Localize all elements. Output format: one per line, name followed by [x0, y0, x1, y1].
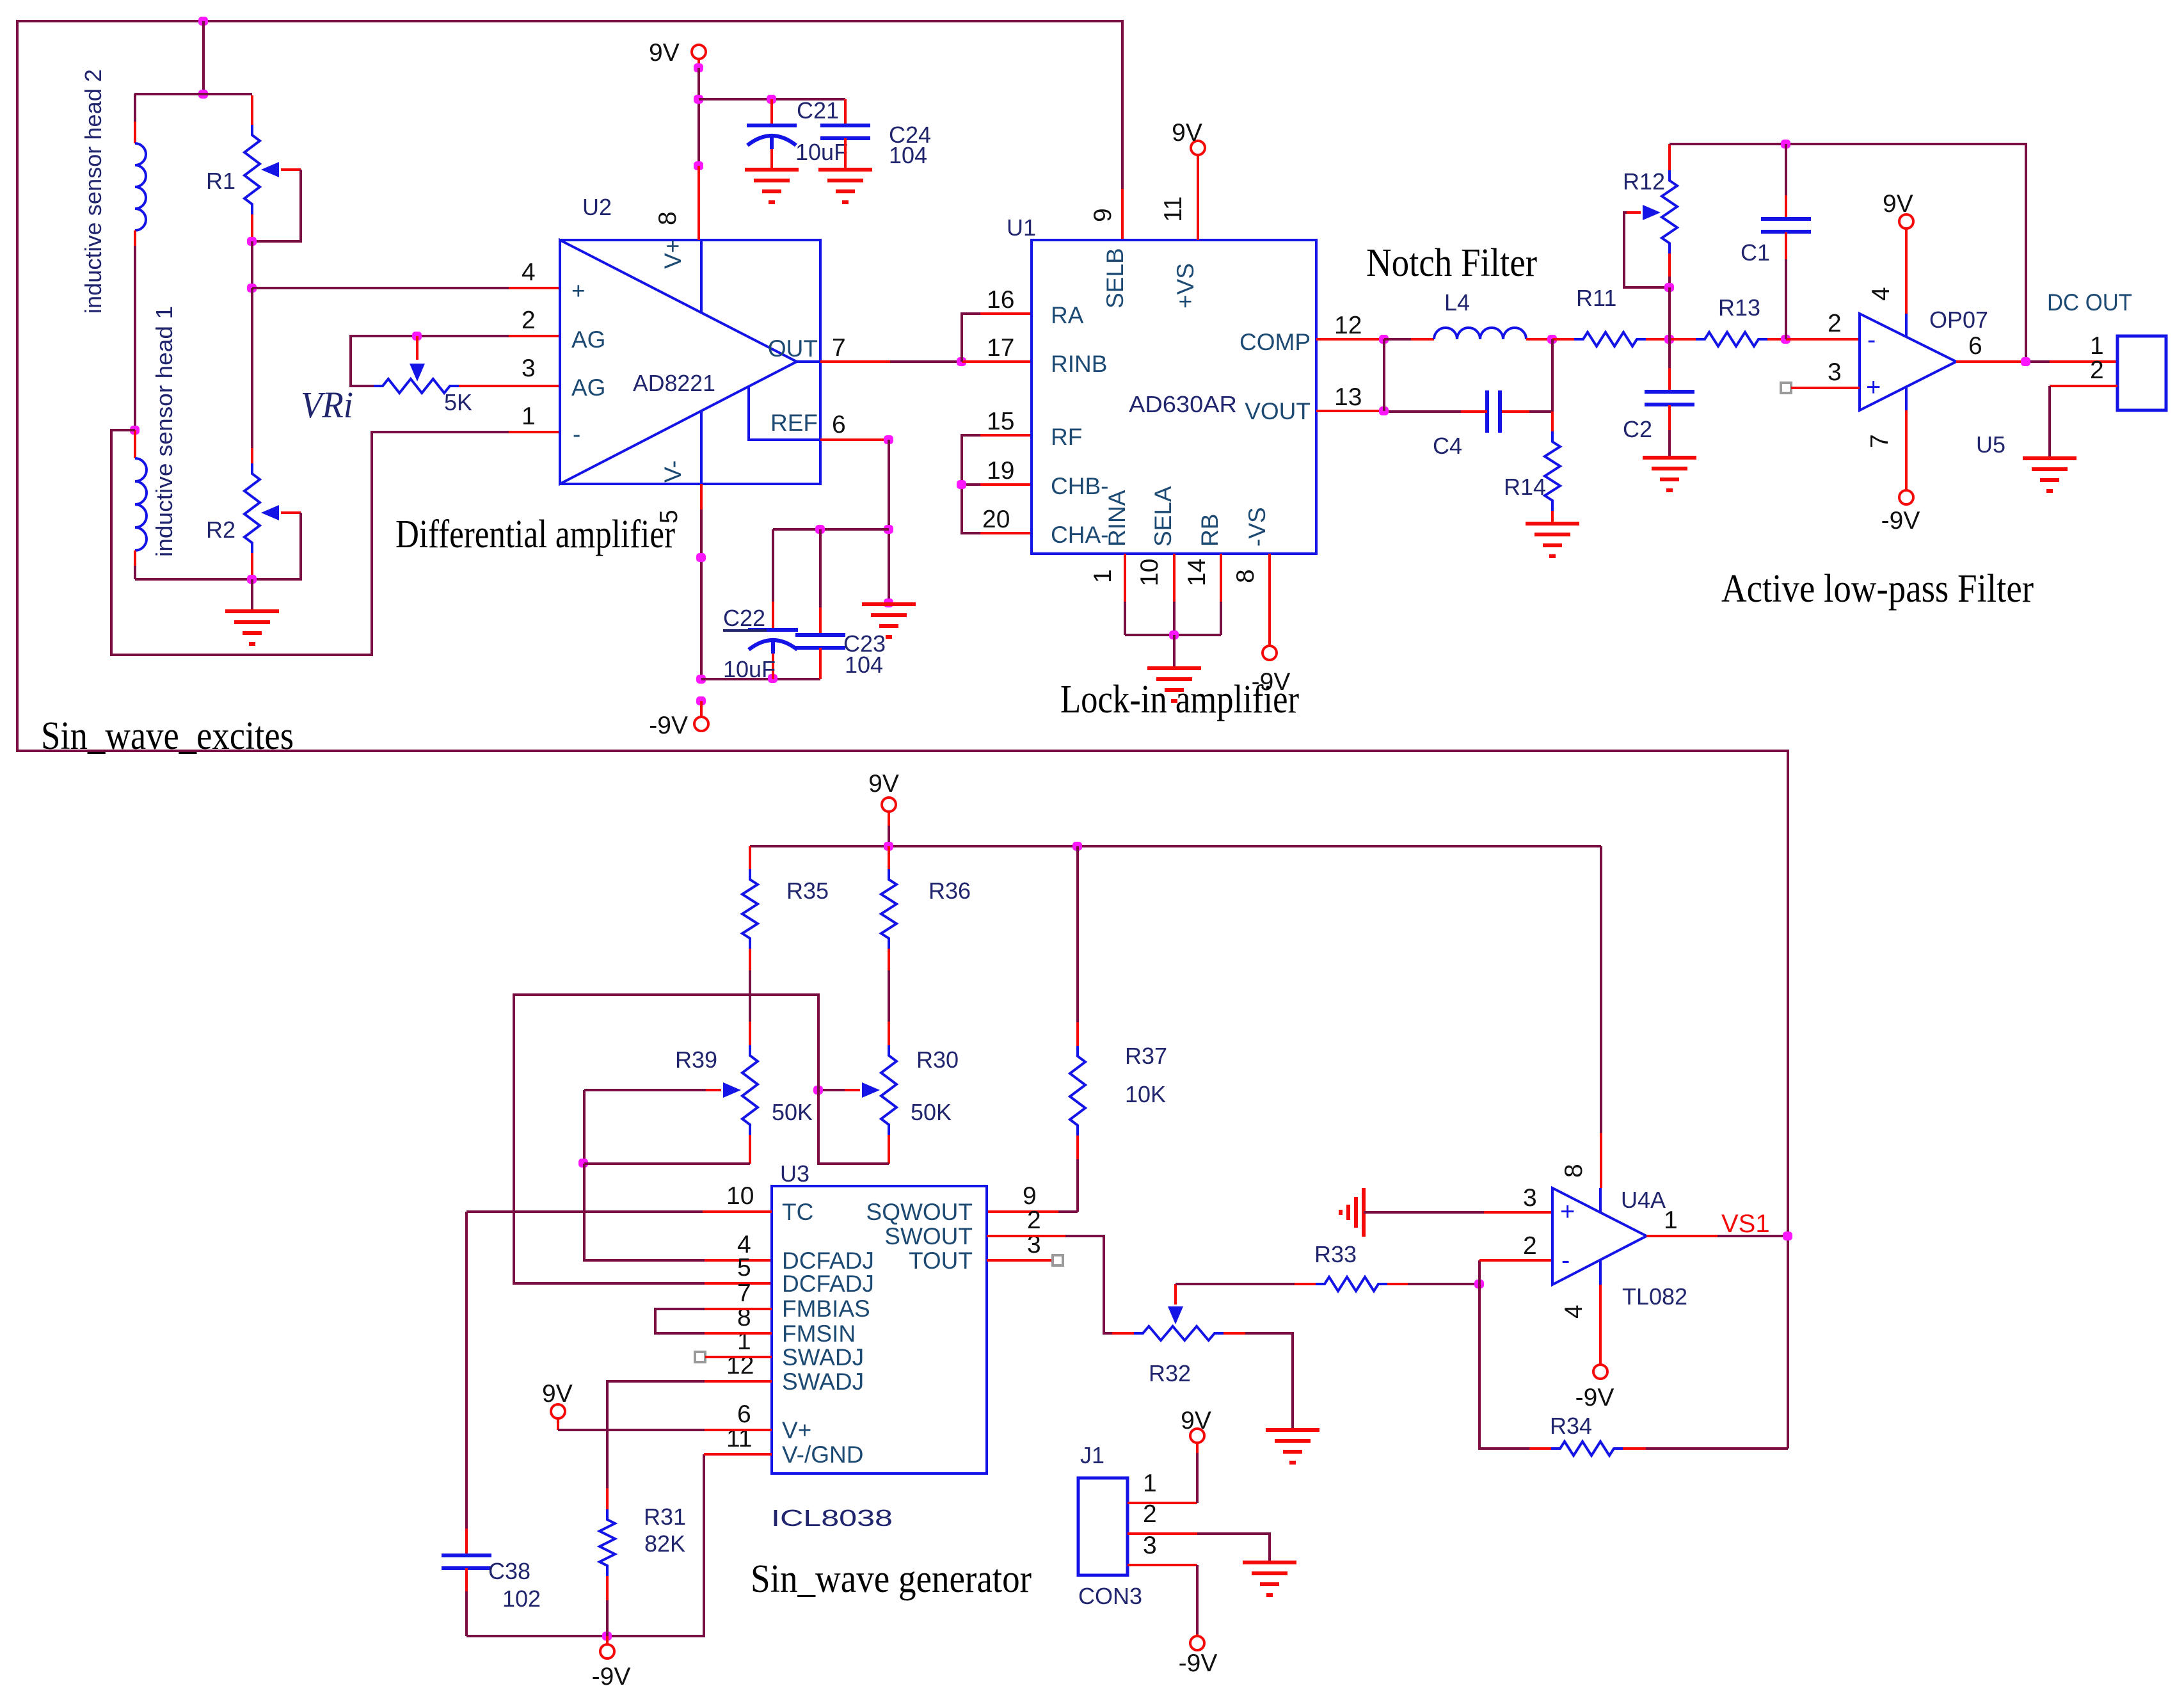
svg-text:C38: C38 — [488, 1558, 530, 1584]
power port -9V (U1) — [1263, 646, 1277, 660]
svg-text:104: 104 — [845, 652, 883, 678]
svg-text:Active low-pass Filter: Active low-pass Filter — [1721, 567, 2034, 611]
capacitor C38 102 — [465, 1529, 468, 1555]
ground (rotated) U4A pin3 — [1362, 1188, 1366, 1237]
ground R32 — [1266, 1428, 1319, 1432]
node junction C23 top — [815, 525, 825, 534]
U4A pin4 line — [1599, 1260, 1602, 1285]
wire R37 to SQWOUT — [1058, 1210, 1078, 1213]
wire U4A pin8 to 9V rail — [1600, 846, 1602, 1133]
svg-text:102: 102 — [502, 1586, 541, 1612]
svg-text:R31: R31 — [644, 1504, 686, 1530]
node junction CHB bracket — [957, 480, 966, 489]
svg-text:12: 12 — [1334, 312, 1362, 339]
wire to U4A pin2 — [1478, 1260, 1481, 1284]
node junction OUT net — [957, 357, 966, 366]
node junction SELA ground — [1169, 630, 1179, 639]
svg-text:13: 13 — [1334, 383, 1362, 411]
wire U4A pin4 to -9V — [1599, 1285, 1602, 1364]
wire 9V rail — [750, 845, 1601, 847]
svg-text:4: 4 — [522, 259, 536, 286]
svg-text:R33: R33 — [1314, 1241, 1357, 1267]
svg-text:6: 6 — [737, 1401, 751, 1428]
node junction C21 top — [767, 95, 776, 104]
node junction REF — [884, 435, 893, 444]
wire R1 to pin4 node — [251, 241, 253, 288]
svg-text:9V: 9V — [649, 39, 680, 67]
svg-text:8: 8 — [654, 211, 682, 225]
resistor R11 — [1552, 338, 1574, 341]
ground C2 — [1643, 456, 1696, 460]
svg-text:14: 14 — [1183, 559, 1211, 586]
wire R1R2 column — [251, 288, 253, 448]
op-amp U4A TL082 body — [1552, 1188, 1646, 1285]
node junction head1 top — [130, 426, 139, 435]
svg-text:SQWOUT: SQWOUT — [866, 1199, 973, 1225]
svg-text:FMBIAS: FMBIAS — [782, 1296, 870, 1322]
wire U4A output VS1 — [1646, 1235, 1718, 1237]
svg-text:16: 16 — [987, 286, 1014, 314]
svg-text:REF: REF — [770, 410, 818, 436]
svg-text:1: 1 — [737, 1328, 751, 1355]
svg-text:Sin_wave_excites: Sin_wave_excites — [41, 714, 294, 758]
wire to U3 pin4 — [584, 1164, 705, 1260]
svg-text:V-/GND: V-/GND — [782, 1441, 863, 1468]
wire branch to sensor heads — [202, 21, 205, 94]
svg-text:10: 10 — [1136, 559, 1163, 586]
svg-text:10: 10 — [726, 1182, 754, 1210]
resistor R14 — [1551, 412, 1554, 431]
node junction top border — [198, 17, 208, 26]
svg-text:TL082: TL082 — [1622, 1283, 1687, 1310]
svg-text:RINB: RINB — [1051, 351, 1107, 377]
svg-text:J1: J1 — [1080, 1442, 1104, 1468]
svg-text:R32: R32 — [1149, 1360, 1191, 1386]
ground R14 — [1526, 522, 1579, 526]
svg-text:CHB-: CHB- — [1051, 473, 1108, 499]
wire R30 wiper to pin5 route — [514, 995, 818, 1283]
svg-text:9V: 9V — [542, 1380, 573, 1408]
svg-text:VOUT: VOUT — [1245, 398, 1311, 424]
node junction VRi wiper — [412, 332, 422, 341]
power port 9V (U1 +VS) — [1191, 141, 1205, 155]
wire VOUT out — [1316, 410, 1384, 412]
svg-text:2: 2 — [1143, 1500, 1157, 1528]
wire pin9 SELB red lead — [1121, 189, 1124, 240]
ground J1 pin2 — [1243, 1561, 1296, 1564]
svg-text:R34: R34 — [1550, 1413, 1592, 1439]
resistor R13 — [1670, 338, 1696, 341]
svg-text:1: 1 — [522, 403, 536, 430]
node junction VS1 — [1783, 1232, 1792, 1240]
svg-text:2: 2 — [1828, 310, 1842, 337]
U2 V+ pin line — [700, 240, 703, 314]
ground C24 — [818, 168, 872, 172]
wiper arrow R39 — [723, 1082, 741, 1098]
wire RA-RINB bracket — [962, 314, 980, 362]
node junction R2 bottom — [247, 575, 257, 584]
svg-text:20: 20 — [982, 506, 1010, 533]
svg-text:DC OUT: DC OUT — [2047, 289, 2132, 316]
svg-text:SWADJ: SWADJ — [782, 1344, 864, 1370]
wire U2 pin5 to -9V — [700, 484, 703, 510]
svg-text:U2: U2 — [582, 194, 612, 220]
node junction sensor top — [198, 90, 208, 99]
svg-text:17: 17 — [987, 334, 1014, 362]
svg-text:+: + — [1866, 373, 1881, 401]
power port -9V (U4A) — [1593, 1365, 1607, 1379]
wire main loop border (VS1 drive net) — [17, 21, 1788, 1449]
node junction R31 bottom — [602, 1632, 612, 1641]
node junction L4 out — [1547, 335, 1557, 344]
wire R32 wiper to R33 — [1176, 1283, 1295, 1285]
resistor R1 (variable) — [251, 95, 253, 125]
svg-text:R1: R1 — [206, 168, 235, 194]
wire R39 bottom loop — [584, 1162, 750, 1165]
svg-text:-9V: -9V — [1881, 507, 1920, 534]
svg-text:11: 11 — [1160, 197, 1187, 223]
wire cap top rail — [773, 528, 889, 531]
potentiometer R39 50K — [749, 1022, 751, 1045]
svg-text:DCFADJ: DCFADJ — [782, 1271, 874, 1297]
node junction rail R37 — [1072, 842, 1082, 851]
ground DC OUT — [2023, 456, 2076, 460]
potentiometer R32 — [1112, 1332, 1134, 1335]
capacitor C2 — [1668, 339, 1671, 368]
svg-text:9V: 9V — [1181, 1407, 1211, 1434]
svg-text:+: + — [571, 278, 586, 304]
svg-text:SELB: SELB — [1102, 248, 1128, 309]
power port -9V (J1) — [1190, 1636, 1204, 1650]
op-amp U2 AD8221 body — [560, 240, 820, 484]
svg-text:8: 8 — [1560, 1164, 1588, 1178]
op-amp U5 OP07 body — [1860, 314, 1956, 410]
wire DC OUT pin2 to ground — [2050, 385, 2117, 387]
capacitor C4 — [1485, 390, 1489, 433]
svg-text:-9V: -9V — [1575, 1384, 1614, 1411]
node junction R30 wiper — [813, 1086, 823, 1095]
svg-text:R2: R2 — [206, 517, 235, 543]
U4A pin8 line — [1599, 1188, 1602, 1212]
svg-text:1: 1 — [2090, 332, 2104, 360]
IC U3 ICL8038 body — [772, 1186, 987, 1473]
capacitor C22 10uF — [772, 529, 774, 602]
svg-text:3: 3 — [522, 355, 536, 382]
svg-text:AD630AR: AD630AR — [1129, 391, 1237, 417]
wire 9V to decoupling caps — [699, 98, 845, 100]
svg-text:RINA: RINA — [1104, 490, 1130, 547]
svg-text:RB: RB — [1197, 514, 1223, 547]
svg-text:Lock-in amplifier: Lock-in amplifier — [1060, 678, 1299, 721]
wire U3 TC route — [703, 1210, 772, 1213]
svg-text:V+: V+ — [660, 239, 686, 269]
node junction REF ground — [884, 598, 893, 607]
resistor R37 10K — [1076, 846, 1079, 1022]
svg-text:15: 15 — [987, 408, 1014, 435]
svg-text:82K: 82K — [644, 1530, 685, 1557]
wire J1 pin1 to 9V — [1128, 1502, 1197, 1504]
node junction VOUT — [1379, 406, 1389, 415]
resistor R2 (variable) — [251, 448, 253, 463]
no-connect U5 pin3 — [1781, 383, 1791, 393]
power port 9V (U3 V+) — [551, 1404, 565, 1418]
svg-text:R13: R13 — [1718, 294, 1760, 321]
svg-text:R14: R14 — [1504, 474, 1546, 500]
svg-text:TC: TC — [782, 1199, 813, 1225]
node junction pin5 b — [696, 675, 706, 684]
wiper arrow R12 — [1643, 205, 1661, 220]
wire C22 C23 bottom rail — [701, 678, 820, 680]
power port 9V (J1) — [1190, 1429, 1204, 1443]
svg-text:50K: 50K — [911, 1099, 952, 1125]
svg-text:U3: U3 — [780, 1160, 809, 1187]
node junction rail R36 — [884, 842, 893, 851]
svg-text:2: 2 — [2090, 357, 2104, 384]
svg-text:6: 6 — [832, 411, 846, 438]
svg-text:9V: 9V — [868, 770, 899, 798]
wire REF net — [820, 438, 889, 441]
resistor R12 (variable) — [1668, 144, 1671, 170]
svg-text:V+: V+ — [782, 1417, 811, 1443]
wire J1 pin3 to -9V — [1128, 1564, 1197, 1566]
svg-text:Differential amplifier: Differential amplifier — [395, 513, 675, 556]
svg-text:CON3: CON3 — [1078, 1583, 1142, 1609]
wiper arrow R30 — [862, 1082, 880, 1098]
resistor R35 — [749, 846, 751, 869]
svg-text:3: 3 — [1523, 1184, 1537, 1212]
connector J1 CON3 — [1078, 1478, 1128, 1575]
capacitor C24 104 — [844, 99, 847, 125]
power port 9V (U2) — [692, 45, 706, 59]
svg-text:-: - — [573, 421, 580, 447]
svg-text:7: 7 — [1866, 434, 1893, 448]
potentiometer VRi 5K — [351, 336, 417, 386]
svg-text:RF: RF — [1051, 424, 1082, 450]
svg-text:AG: AG — [571, 374, 605, 401]
svg-text:R37: R37 — [1125, 1043, 1167, 1069]
wire U2 OUT to U1 RINB — [820, 360, 890, 363]
svg-text:R12: R12 — [1623, 168, 1665, 195]
svg-text:-VS: -VS — [1244, 507, 1270, 547]
svg-text:+: + — [1560, 1198, 1575, 1226]
svg-text:2: 2 — [522, 307, 536, 334]
svg-text:-9V: -9V — [1179, 1650, 1218, 1677]
node junction 9V stem — [694, 63, 703, 72]
wire R12 top feedback — [1670, 144, 2026, 362]
svg-text:2: 2 — [1027, 1207, 1041, 1234]
svg-text:Notch Filter: Notch Filter — [1366, 241, 1537, 285]
wire U5 output — [1956, 360, 2021, 363]
svg-text:U4A: U4A — [1621, 1187, 1666, 1213]
svg-text:8: 8 — [1232, 569, 1259, 583]
U2 REF pin line — [749, 387, 820, 440]
node junction U4A inverting node — [1474, 1280, 1484, 1289]
svg-text:V-: V- — [660, 460, 686, 483]
svg-text:AD8221: AD8221 — [633, 370, 715, 396]
wire RF/CHB-/CHA- bracket — [962, 435, 980, 533]
power port 9V (generator rail) — [882, 798, 896, 812]
svg-text:4: 4 — [1867, 287, 1895, 301]
wire pin8 V+ red lead — [697, 166, 700, 240]
U5 pin4 line — [1905, 314, 1908, 337]
IC U1 AD630AR body — [1032, 240, 1316, 554]
svg-text:C22: C22 — [723, 605, 765, 631]
svg-text:CHA-: CHA- — [1051, 522, 1108, 548]
svg-text:SELA: SELA — [1150, 486, 1176, 547]
svg-text:9V: 9V — [1883, 190, 1913, 218]
svg-text:9: 9 — [1023, 1182, 1037, 1210]
wire U1 bottom pins — [1124, 554, 1126, 602]
wire head1 to pin1 route — [111, 430, 509, 655]
node junction C2x top rail — [884, 525, 893, 534]
svg-text:COMP: COMP — [1239, 329, 1311, 355]
svg-text:5K: 5K — [444, 389, 472, 415]
svg-text:TOUT: TOUT — [909, 1248, 973, 1274]
svg-text:VRi: VRi — [301, 384, 353, 426]
svg-text:VS1: VS1 — [1721, 1210, 1770, 1238]
svg-text:6: 6 — [1968, 332, 1982, 360]
svg-text:DCFADJ: DCFADJ — [782, 1248, 874, 1274]
svg-text:1: 1 — [1664, 1207, 1678, 1234]
svg-text:L4: L4 — [1444, 289, 1470, 316]
connector DC OUT — [2117, 336, 2166, 410]
svg-text:3: 3 — [1828, 358, 1842, 386]
wire C4 branch — [1551, 339, 1554, 412]
node junction C22 bottom — [768, 674, 777, 683]
svg-text:10uF: 10uF — [723, 656, 776, 682]
inductor sensor head 2 coil — [134, 94, 136, 122]
capacitor C21 10uF — [770, 99, 773, 125]
node junction R12 bottom — [1664, 283, 1674, 292]
power port -9V (R31) — [600, 1644, 614, 1658]
svg-text:inductive sensor head 2: inductive sensor head 2 — [80, 69, 106, 314]
svg-text:3: 3 — [1143, 1532, 1157, 1559]
resistor R33 — [1295, 1283, 1316, 1285]
wire SWOUT to R32 — [987, 1235, 1065, 1237]
node junction R11-R13 — [1664, 335, 1674, 344]
svg-text:+VS: +VS — [1172, 263, 1199, 309]
wire sensor top horizontal — [134, 93, 252, 95]
capacitor C1 — [1785, 144, 1787, 195]
wire COMP out — [1316, 338, 1384, 341]
svg-text:C21: C21 — [797, 97, 839, 124]
svg-text:C4: C4 — [1433, 433, 1462, 459]
svg-text:Sin_wave generator: Sin_wave generator — [751, 1557, 1032, 1601]
svg-text:R39: R39 — [675, 1047, 717, 1073]
inductor L4 — [1384, 338, 1411, 341]
svg-text:-9V: -9V — [649, 712, 688, 739]
svg-text:U5: U5 — [1976, 431, 2005, 458]
wiper arrow R32 — [1168, 1306, 1183, 1324]
ground sensor divider — [251, 579, 253, 611]
svg-text:C1: C1 — [1741, 239, 1770, 266]
svg-text:7: 7 — [832, 334, 846, 362]
svg-text:19: 19 — [987, 457, 1014, 485]
capacitor C23 104 — [819, 529, 822, 607]
svg-text:C2: C2 — [1623, 416, 1652, 442]
node junction pin4 branch — [247, 284, 257, 293]
svg-text:OP07: OP07 — [1929, 307, 1988, 333]
wiper arrow VRi — [410, 364, 425, 381]
node junction pin8 stem — [694, 161, 703, 170]
power port -9V (U2) — [694, 717, 708, 731]
wire head1 bottom to R2 node — [135, 578, 252, 581]
svg-text:-: - — [1867, 326, 1876, 354]
svg-text:OUT: OUT — [768, 335, 818, 362]
svg-text:50K: 50K — [772, 1099, 813, 1125]
svg-text:AG: AG — [571, 326, 605, 353]
svg-text:-: - — [1561, 1246, 1570, 1274]
wire R30 bottom loop — [818, 1090, 889, 1164]
svg-text:10uF: 10uF — [795, 139, 848, 165]
wire J1 pin2 to ground — [1128, 1532, 1197, 1535]
wiper arrow R1 — [261, 162, 279, 177]
svg-text:9: 9 — [1089, 208, 1117, 222]
svg-text:R30: R30 — [916, 1047, 959, 1073]
resistor R36 — [888, 846, 890, 869]
svg-text:104: 104 — [889, 142, 927, 168]
wire FMBIAS-FMSIN bracket — [655, 1309, 705, 1333]
node junction C1 top — [1781, 140, 1790, 149]
no-connect U3 TOUT — [987, 1259, 1053, 1262]
U5 pin7 line — [1905, 387, 1908, 410]
ground C21 — [745, 168, 799, 172]
svg-text:U1: U1 — [1007, 214, 1036, 241]
wire R32 right to ground — [1245, 1333, 1293, 1429]
wire U1 -VS pin — [1268, 554, 1271, 645]
svg-text:SWOUT: SWOUT — [884, 1223, 973, 1249]
svg-text:ICL8038: ICL8038 — [771, 1505, 893, 1531]
wire 9V to pin6 — [558, 1429, 705, 1431]
node junction COMP — [1379, 335, 1389, 344]
svg-text:10K: 10K — [1125, 1081, 1166, 1107]
U2 V- pin line — [700, 411, 703, 484]
resistor R31 82K — [607, 1381, 705, 1488]
wiper arrow R2 — [261, 505, 279, 520]
wire pin4 horizontal — [252, 287, 509, 289]
svg-text:-9V: -9V — [592, 1663, 631, 1686]
svg-text:2: 2 — [1523, 1232, 1537, 1260]
node junction output feedback — [2021, 357, 2030, 366]
ground REF net — [862, 602, 916, 606]
node junction pin5 a — [696, 553, 706, 562]
svg-text:FMSIN: FMSIN — [782, 1321, 856, 1347]
svg-text:1: 1 — [1089, 569, 1117, 583]
ground U1 SELA — [1147, 666, 1201, 670]
svg-text:7: 7 — [737, 1280, 751, 1307]
svg-text:R36: R36 — [929, 878, 971, 904]
wire bottom -9V rail — [466, 1454, 704, 1636]
svg-text:RA: RA — [1051, 302, 1084, 328]
svg-text:inductive sensor head 1: inductive sensor head 1 — [151, 306, 177, 557]
node junction R39 wiper tie — [578, 1159, 588, 1168]
potentiometer R30 50K — [888, 1022, 890, 1045]
power port 9V (U5) — [1899, 214, 1913, 229]
wire comp-vout tie — [1383, 339, 1385, 411]
svg-text:4: 4 — [1560, 1305, 1588, 1319]
svg-text:9V: 9V — [1172, 119, 1202, 147]
power port -9V (U5) — [1899, 490, 1913, 504]
svg-text:1: 1 — [1143, 1470, 1157, 1497]
node junction R13 out / C1 bottom — [1781, 335, 1790, 344]
svg-text:SWADJ: SWADJ — [782, 1369, 864, 1395]
node junction R1 bottom — [247, 237, 257, 246]
inductor sensor head 1 coil — [134, 430, 136, 458]
resistor R34 — [1479, 1284, 1529, 1449]
svg-text:R11: R11 — [1576, 285, 1616, 311]
no-connect U3 SWADJ pin1 — [695, 1352, 705, 1362]
node junction C21 branch — [694, 95, 703, 104]
